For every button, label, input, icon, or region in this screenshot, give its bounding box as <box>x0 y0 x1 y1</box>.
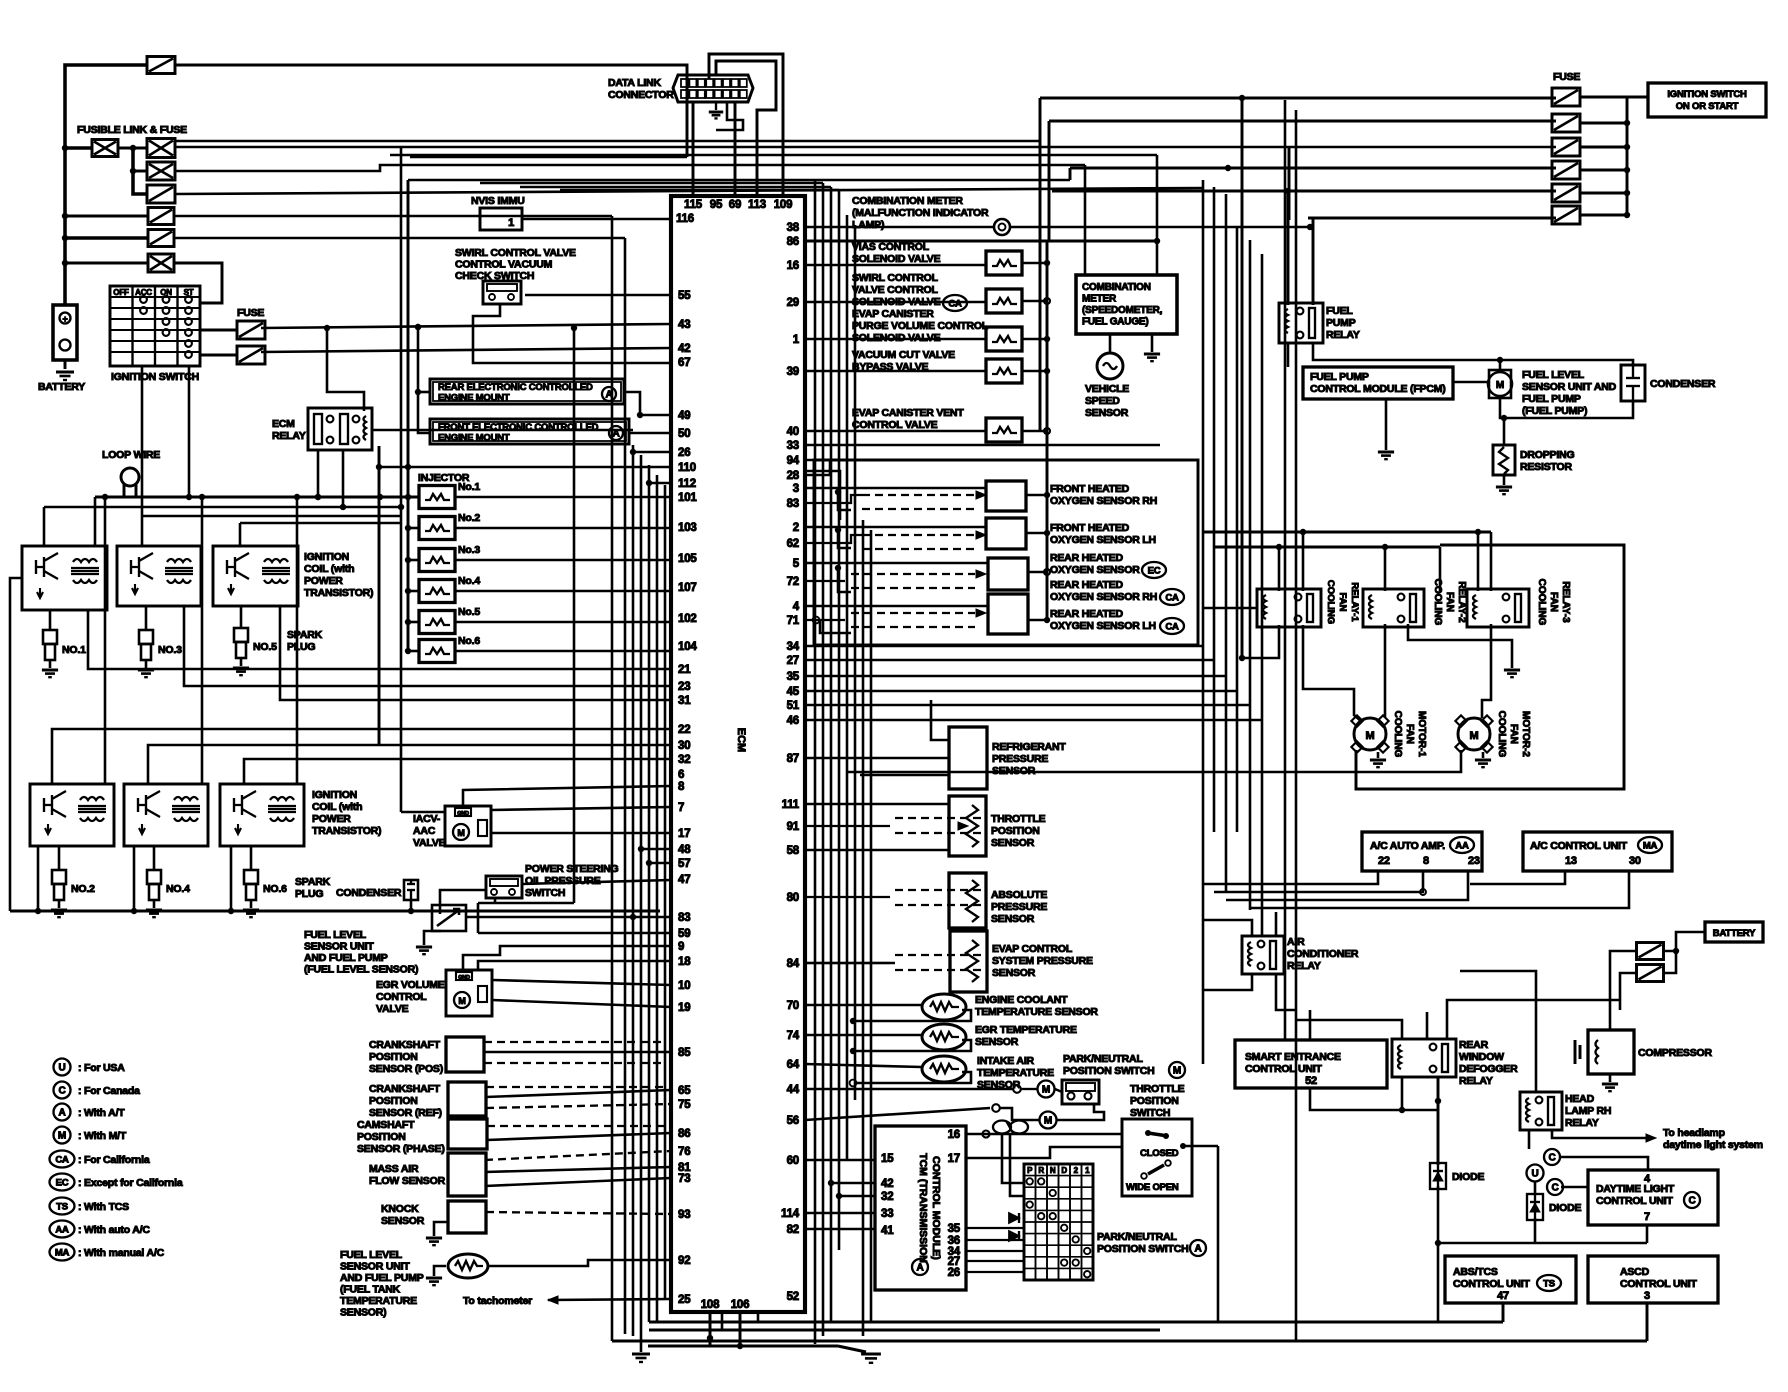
svg-text:OFF: OFF <box>113 288 129 297</box>
svg-text:23: 23 <box>678 681 690 693</box>
svg-text:PLUG: PLUG <box>295 888 323 900</box>
svg-text:86: 86 <box>678 1128 690 1140</box>
headlamp relay wires <box>1460 971 1536 1093</box>
battery2 wires <box>1663 932 1705 951</box>
ABS TCS control unit <box>1445 1256 1576 1303</box>
svg-text:16: 16 <box>948 1129 960 1141</box>
svg-text:EC: EC <box>1148 566 1161 577</box>
svg-text:43: 43 <box>678 319 690 331</box>
svg-text:80: 80 <box>787 892 799 904</box>
svg-text:THROTTLE: THROTTLE <box>1130 1083 1185 1095</box>
svg-text:TEMPERATURE: TEMPERATURE <box>340 1295 417 1307</box>
cooling fan relay 1 <box>1257 589 1321 627</box>
svg-text:47: 47 <box>678 874 690 886</box>
NVIS IMMU box <box>480 208 522 230</box>
wire fuse3 row <box>175 146 1556 149</box>
svg-text:C: C <box>1688 1196 1695 1207</box>
head lamp relay <box>1520 1092 1562 1130</box>
svg-text:TEMPERATURE: TEMPERATURE <box>977 1067 1054 1079</box>
diodes small <box>1009 1213 1019 1223</box>
svg-text:CONTROL UNIT: CONTROL UNIT <box>1620 1278 1698 1290</box>
svg-text:RELAY: RELAY <box>1287 960 1321 972</box>
A/C control unit box <box>1523 832 1672 871</box>
ignition coil 4 <box>30 784 114 846</box>
svg-text:TEMPERATURE SENSOR: TEMPERATURE SENSOR <box>975 1006 1098 1018</box>
svg-text:7: 7 <box>678 802 684 814</box>
svg-text:75: 75 <box>678 1099 691 1111</box>
svg-text:SENSOR: SENSOR <box>992 967 1036 979</box>
svg-text:OXYGEN SENSOR LH: OXYGEN SENSOR LH <box>1050 620 1156 632</box>
ECM relay <box>308 408 372 450</box>
throttle valve switch symbol A <box>993 1121 1011 1134</box>
svg-text:No.2: No.2 <box>458 512 480 524</box>
svg-text:VALVE: VALVE <box>413 837 446 849</box>
wire top right bus 1 <box>1040 97 1556 100</box>
svg-text:FUEL PUMP: FUEL PUMP <box>1522 393 1581 405</box>
fuel level sensor symbol <box>432 905 466 931</box>
svg-text:FAN: FAN <box>1444 592 1455 612</box>
ECM relay feed wires <box>327 328 364 411</box>
fuse F <box>148 230 174 247</box>
svg-text:OXYGEN SENSOR RH: OXYGEN SENSOR RH <box>1050 591 1157 603</box>
svg-text:CONTROL MODULE): CONTROL MODULE) <box>930 1156 942 1260</box>
svg-text:No.6: No.6 <box>458 635 480 647</box>
svg-text:COOLING: COOLING <box>1432 579 1443 626</box>
svg-text:104: 104 <box>678 641 697 653</box>
vertical x574 <box>573 328 576 903</box>
svg-text:IGNITION SWITCH: IGNITION SWITCH <box>111 371 199 383</box>
O2 heater bus vertical <box>1046 240 1049 620</box>
camshaft sensor <box>448 1119 487 1149</box>
crankshaft sensor POS <box>446 1037 484 1072</box>
fusible link B <box>147 139 175 158</box>
svg-text:CRANKSHAFT: CRANKSHAFT <box>369 1039 441 1051</box>
left vertical bundle <box>611 216 614 1341</box>
O2 signal dashed wires <box>805 495 862 503</box>
wire fusible B row <box>175 140 1040 143</box>
knock sensor ground <box>434 1222 448 1236</box>
knock sensor <box>448 1201 486 1233</box>
TCM wires left <box>805 1159 875 1162</box>
svg-text:MOTOR-2: MOTOR-2 <box>1520 711 1531 757</box>
svg-text:28: 28 <box>787 470 800 482</box>
mount feed wires <box>418 327 430 433</box>
svg-text:SENSOR (POS): SENSOR (POS) <box>369 1063 443 1075</box>
wire pin33 445 <box>805 444 1160 447</box>
svg-text:39: 39 <box>787 366 799 378</box>
svg-text:35: 35 <box>787 671 800 683</box>
pin44 wire to M1 <box>805 1088 1013 1091</box>
svg-text:PRESSURE: PRESSURE <box>992 753 1048 765</box>
intake air temp sensor <box>922 1056 966 1082</box>
wire DLC drop line <box>410 156 687 159</box>
svg-text:86: 86 <box>787 236 799 248</box>
park neutral switch M <box>1062 1080 1099 1104</box>
fuse top-left <box>147 57 175 74</box>
svg-text:No.5: No.5 <box>458 606 480 618</box>
svg-text:(FUEL TANK: (FUEL TANK <box>340 1284 401 1296</box>
svg-text:DROPPING: DROPPING <box>1520 449 1574 461</box>
fusible link G <box>148 254 174 272</box>
svg-text:NO.1: NO.1 <box>62 644 86 656</box>
ignition switch column drops <box>141 366 144 516</box>
svg-text:CONDENSER: CONDENSER <box>336 887 402 899</box>
fuses battery2 <box>1637 943 1664 960</box>
svg-text:32: 32 <box>881 1191 893 1203</box>
svg-text:49: 49 <box>678 410 690 422</box>
wire pin38 MIL <box>805 226 994 229</box>
ABS dashed wire pin80 <box>895 889 985 891</box>
svg-text:55: 55 <box>678 290 691 302</box>
ignition coil 3 <box>213 546 298 606</box>
svg-text:REAR: REAR <box>1459 1039 1489 1051</box>
svg-text:7: 7 <box>1644 1211 1650 1223</box>
svg-text:LAMP): LAMP) <box>852 219 884 231</box>
svg-text:A/C AUTO AMP.: A/C AUTO AMP. <box>1370 840 1445 852</box>
svg-text:U: U <box>1531 1169 1538 1180</box>
battery box 2 <box>1705 922 1763 942</box>
svg-text:FUSE: FUSE <box>1553 71 1580 83</box>
M circle 1 <box>1038 1081 1055 1098</box>
svg-text:C: C <box>1551 1183 1558 1194</box>
svg-text:TCM (TRANSMISSION: TCM (TRANSMISSION <box>917 1153 929 1263</box>
svg-text:PLUG: PLUG <box>287 641 315 653</box>
svg-text:OXYGEN SENSOR LH: OXYGEN SENSOR LH <box>1050 534 1156 546</box>
svg-text:CONNECTOR: CONNECTOR <box>608 89 674 101</box>
svg-text:82: 82 <box>787 1224 799 1236</box>
svg-text:AAC: AAC <box>413 825 436 837</box>
svg-text:25: 25 <box>678 1294 691 1306</box>
svg-text:: For California: : For California <box>78 1154 150 1166</box>
svg-text:SENSOR: SENSOR <box>1085 407 1129 419</box>
svg-text:TRANSISTOR): TRANSISTOR) <box>304 587 373 599</box>
injector No.6 <box>419 640 455 663</box>
svg-text:CONTROL UNIT: CONTROL UNIT <box>1245 1063 1323 1075</box>
svg-text:IGNITION SWITCH: IGNITION SWITCH <box>1667 89 1747 100</box>
wire pin1 evap <box>805 338 986 341</box>
svg-text:To headlamp: To headlamp <box>1663 1127 1725 1139</box>
ECM left pin stub wires 2 <box>641 848 671 851</box>
svg-text:34: 34 <box>787 641 800 653</box>
vertical x401 supply <box>400 147 403 812</box>
svg-text:: With M/T: : With M/T <box>78 1130 127 1142</box>
svg-text:HEAD: HEAD <box>1565 1093 1595 1105</box>
svg-text:COMBINATION METER: COMBINATION METER <box>852 195 963 207</box>
svg-text:111: 111 <box>782 799 800 811</box>
svg-text:ENGINE COOLANT: ENGINE COOLANT <box>975 994 1068 1006</box>
svg-text:PURGE VOLUME CONTROL: PURGE VOLUME CONTROL <box>852 320 989 332</box>
coil base wires row1 <box>88 610 671 669</box>
svg-text:38: 38 <box>787 222 800 234</box>
svg-text:: With A/T: : With A/T <box>78 1107 125 1119</box>
svg-text:DIODE: DIODE <box>1452 1171 1484 1183</box>
relay3 top pins <box>1477 532 1480 591</box>
fuel tank temp ground <box>434 1266 446 1276</box>
svg-text:74: 74 <box>787 1030 800 1042</box>
ignition switch output wires <box>200 329 237 332</box>
svg-text:RELAY: RELAY <box>272 430 306 442</box>
svg-text:POSITION: POSITION <box>369 1095 418 1107</box>
svg-text:D: D <box>1061 1166 1067 1175</box>
fuse right 5 <box>1552 184 1580 202</box>
spark plug NO.5 <box>234 628 248 642</box>
O2 sense solid wires <box>805 487 986 490</box>
MIL lamp <box>994 219 1010 235</box>
injector No.4 <box>419 580 455 603</box>
svg-text:NO.6: NO.6 <box>263 883 287 895</box>
svg-text:VIAS CONTROL: VIAS CONTROL <box>852 241 930 253</box>
svg-text:9: 9 <box>678 941 684 953</box>
svg-text:SENSOR (PHASE): SENSOR (PHASE) <box>357 1143 445 1155</box>
svg-text:RESISTOR: RESISTOR <box>1520 461 1573 473</box>
ASCD control unit <box>1588 1256 1718 1303</box>
svg-text:EGR VOLUME: EGR VOLUME <box>376 979 445 991</box>
svg-text:93: 93 <box>678 1209 690 1221</box>
svg-text:AA: AA <box>55 1225 69 1236</box>
svg-text:RELAY: RELAY <box>1459 1075 1493 1087</box>
right fuse bus <box>1580 96 1648 99</box>
svg-text:AND FUEL PUMP: AND FUEL PUMP <box>304 952 388 964</box>
svg-text:5: 5 <box>793 558 800 570</box>
svg-text:22: 22 <box>678 724 690 736</box>
refrigerant other wires <box>931 700 949 740</box>
svg-text:M: M <box>1044 1116 1052 1127</box>
TCM box <box>875 1126 966 1290</box>
ignition coil 5 <box>124 784 208 846</box>
svg-text:8: 8 <box>1423 855 1429 867</box>
wire fuse H to pin43 <box>261 324 671 328</box>
relay drop wires <box>317 451 320 497</box>
condenser wire <box>410 900 413 911</box>
svg-text:WINDOW: WINDOW <box>1459 1051 1504 1063</box>
wires fusible links <box>62 145 68 151</box>
svg-text:CA: CA <box>1165 622 1179 633</box>
wire pin16 vias <box>805 264 986 267</box>
cooling fan feed line 3 <box>1203 607 1257 610</box>
oxygen sensor outer box <box>814 460 1198 645</box>
svg-text:SYSTEM PRESSURE: SYSTEM PRESSURE <box>992 955 1093 967</box>
svg-text:NVIS IMMU: NVIS IMMU <box>471 195 525 207</box>
svg-text:114: 114 <box>781 1208 800 1220</box>
ignition switch on or start box <box>1648 83 1766 117</box>
coil supply verticals row2 long <box>104 497 107 784</box>
svg-text:41: 41 <box>881 1225 894 1237</box>
TCM area verticals <box>862 520 865 1336</box>
svg-text:1: 1 <box>508 217 514 229</box>
DLC loop wires <box>709 54 783 196</box>
svg-text:CRANKSHAFT: CRANKSHAFT <box>369 1083 441 1095</box>
svg-text:M: M <box>58 1131 66 1142</box>
svg-text:N: N <box>1050 1166 1056 1175</box>
svg-text:COOLING: COOLING <box>1392 711 1403 758</box>
fuse right 3 <box>1552 138 1580 156</box>
fuel tank temp sensor <box>448 1254 488 1278</box>
svg-text:To tachometer: To tachometer <box>463 1295 532 1307</box>
svg-text:M: M <box>458 996 465 1006</box>
sensor dashed wires crank ref <box>486 1086 665 1088</box>
coil bus 4 <box>240 522 401 525</box>
svg-text:95: 95 <box>710 199 723 211</box>
ECM relay output wire <box>373 429 633 432</box>
coil plugs wires row2 <box>58 846 61 870</box>
svg-text:SPARK: SPARK <box>295 876 331 888</box>
wire top right bus 5 <box>1052 190 1556 193</box>
svg-text:OXYGEN SENSOR RH: OXYGEN SENSOR RH <box>1050 495 1157 507</box>
AC relay wires <box>1203 920 1252 936</box>
svg-text:KNOCK: KNOCK <box>381 1203 419 1215</box>
svg-text:ON OR START: ON OR START <box>1676 101 1739 112</box>
svg-text:50: 50 <box>678 428 690 440</box>
spark plug NO.1 <box>43 630 57 644</box>
injector No.5 <box>419 611 455 634</box>
svg-text:IGNITION: IGNITION <box>312 789 357 801</box>
VIAS solenoid valve <box>986 251 1022 275</box>
compressor wires <box>1609 964 1612 1030</box>
svg-text:FAN: FAN <box>1337 593 1348 612</box>
svg-text:M: M <box>1173 1066 1181 1077</box>
fuel pump wires <box>1287 343 1290 367</box>
svg-text:A: A <box>1194 1244 1201 1255</box>
svg-text:115: 115 <box>684 199 703 211</box>
O2 left hooks <box>838 492 851 510</box>
svg-text:1: 1 <box>1085 1166 1090 1175</box>
fuel pump relay <box>1279 303 1323 343</box>
DLC wires to ECM <box>692 102 695 196</box>
right wires from pins 34-46 to right bundle <box>805 460 830 475</box>
legend <box>54 1059 71 1076</box>
svg-text:P: P <box>1027 1166 1033 1175</box>
svg-text:THROTTLE: THROTTLE <box>991 813 1046 825</box>
evap vent control valve <box>986 418 1022 442</box>
relay3 bottom wires <box>1482 624 1491 718</box>
svg-text:POSITION SWITCH: POSITION SWITCH <box>1097 1243 1189 1255</box>
svg-text:ABS/TCS: ABS/TCS <box>1453 1266 1498 1278</box>
svg-text:106: 106 <box>731 1299 750 1311</box>
smart entrance control unit <box>1235 1040 1387 1088</box>
svg-text:EGR TEMPERATURE: EGR TEMPERATURE <box>975 1024 1077 1036</box>
wire pin40 vent <box>805 430 986 433</box>
FPCM box <box>1303 367 1453 399</box>
crankshaft sensor REF <box>448 1082 486 1116</box>
relay1 top pins <box>1278 547 1281 591</box>
svg-text:NO.4: NO.4 <box>166 883 190 895</box>
svg-text:A: A <box>916 1263 923 1274</box>
PNP switch A grid <box>1024 1164 1093 1280</box>
injector riser2 <box>378 446 381 746</box>
svg-text:101: 101 <box>678 492 697 504</box>
svg-text:70: 70 <box>787 1000 799 1012</box>
svg-text:73: 73 <box>678 1173 690 1185</box>
rear window defogger relay <box>1392 1039 1456 1077</box>
svg-text:RELAY-3: RELAY-3 <box>1560 581 1571 623</box>
svg-text:SENSOR UNIT AND: SENSOR UNIT AND <box>1522 381 1617 393</box>
motor grounds <box>1377 752 1380 758</box>
svg-text:POWER STEERING: POWER STEERING <box>525 863 618 875</box>
M circle 2 <box>1040 1112 1057 1129</box>
svg-text:: With auto A/C: : With auto A/C <box>78 1224 150 1236</box>
svg-text:POSITION: POSITION <box>991 825 1040 837</box>
svg-text:83: 83 <box>678 912 690 924</box>
fuse I <box>237 346 265 364</box>
svg-text:CONDENSER: CONDENSER <box>1650 378 1716 390</box>
svg-text:+: + <box>62 314 67 324</box>
svg-text:31: 31 <box>678 695 691 707</box>
svg-text:EC: EC <box>56 1178 69 1189</box>
svg-text:2: 2 <box>793 522 799 534</box>
svg-text:3: 3 <box>1644 1290 1650 1302</box>
svg-text:REAR HEATED: REAR HEATED <box>1050 579 1123 591</box>
svg-text:15: 15 <box>881 1153 894 1165</box>
TPS dashed wire pin91 <box>805 825 890 827</box>
combination meter speedo box <box>1076 275 1177 334</box>
absolute pressure sensor <box>949 873 986 928</box>
svg-text:(FUEL LEVEL SENSOR): (FUEL LEVEL SENSOR) <box>304 964 418 976</box>
svg-text:65: 65 <box>678 1085 691 1097</box>
svg-text:PARK/NEUTRAL: PARK/NEUTRAL <box>1097 1231 1177 1243</box>
svg-text:FAN: FAN <box>1404 724 1415 744</box>
svg-text:INTAKE AIR: INTAKE AIR <box>977 1055 1035 1067</box>
comb meter feed vertical <box>1084 165 1087 275</box>
air conditioner relay <box>1242 936 1284 974</box>
svg-text:M: M <box>1366 730 1375 742</box>
svg-text:CA: CA <box>1165 593 1179 604</box>
svg-text:PRESSURE: PRESSURE <box>991 901 1047 913</box>
svg-text:64: 64 <box>787 1059 800 1071</box>
below-ECM short verticals <box>721 1312 724 1330</box>
coil plugs wires row1 <box>49 610 52 630</box>
svg-text:SENSOR UNIT: SENSOR UNIT <box>304 941 374 953</box>
TCM right wires <box>966 1133 1122 1136</box>
sensor wires MAF <box>485 1151 671 1160</box>
sensor dashed wires crank pos <box>484 1041 665 1043</box>
svg-text:CONTROL UNIT: CONTROL UNIT <box>1596 1195 1674 1207</box>
relay2 bottom wires <box>1384 624 1387 718</box>
svg-text:C: C <box>58 1086 65 1097</box>
svg-text:: With manual A/C: : With manual A/C <box>78 1247 165 1259</box>
svg-text:POSITION: POSITION <box>357 1131 406 1143</box>
svg-text:ENGINE MOUNT: ENGINE MOUNT <box>438 433 510 444</box>
swirl solenoid valve <box>986 289 1022 313</box>
svg-text:(FUEL PUMP): (FUEL PUMP) <box>1522 405 1587 417</box>
svg-text:SMART ENTRANCE: SMART ENTRANCE <box>1245 1051 1341 1063</box>
svg-text:METER: METER <box>1082 294 1117 305</box>
svg-text:COMBINATION: COMBINATION <box>1082 282 1151 293</box>
injector No.1 <box>419 486 455 509</box>
A/C auto amp box <box>1362 832 1482 871</box>
svg-text:AA: AA <box>1455 841 1469 852</box>
svg-text:EVAP CANISTER VENT: EVAP CANISTER VENT <box>852 407 964 419</box>
spark plug NO.4 <box>147 870 161 884</box>
spark plug NO.3 <box>139 630 153 644</box>
svg-text:109: 109 <box>774 199 793 211</box>
coil bus 2 <box>44 506 401 509</box>
sensor dashed wires camshaft <box>487 1125 665 1127</box>
svg-text:CONTROL MODULE (FPCM): CONTROL MODULE (FPCM) <box>1310 383 1446 395</box>
refrigerant pressure sensor <box>949 727 987 789</box>
svg-text:71: 71 <box>787 615 800 627</box>
svg-text:FRONT HEATED: FRONT HEATED <box>1050 483 1130 495</box>
data link connector <box>673 75 753 102</box>
svg-text:REAR HEATED: REAR HEATED <box>1050 552 1123 564</box>
NVIS wire to pin116 <box>522 218 671 221</box>
ignition coil 1 <box>22 546 107 610</box>
vehicle speed sensor <box>1097 353 1123 379</box>
evap purge solenoid valve <box>986 327 1022 351</box>
svg-text:No.1: No.1 <box>458 481 480 493</box>
svg-text:SWITCH: SWITCH <box>525 887 565 899</box>
svg-text:35: 35 <box>948 1223 961 1235</box>
svg-text:POSITION SWITCH: POSITION SWITCH <box>1063 1065 1155 1077</box>
